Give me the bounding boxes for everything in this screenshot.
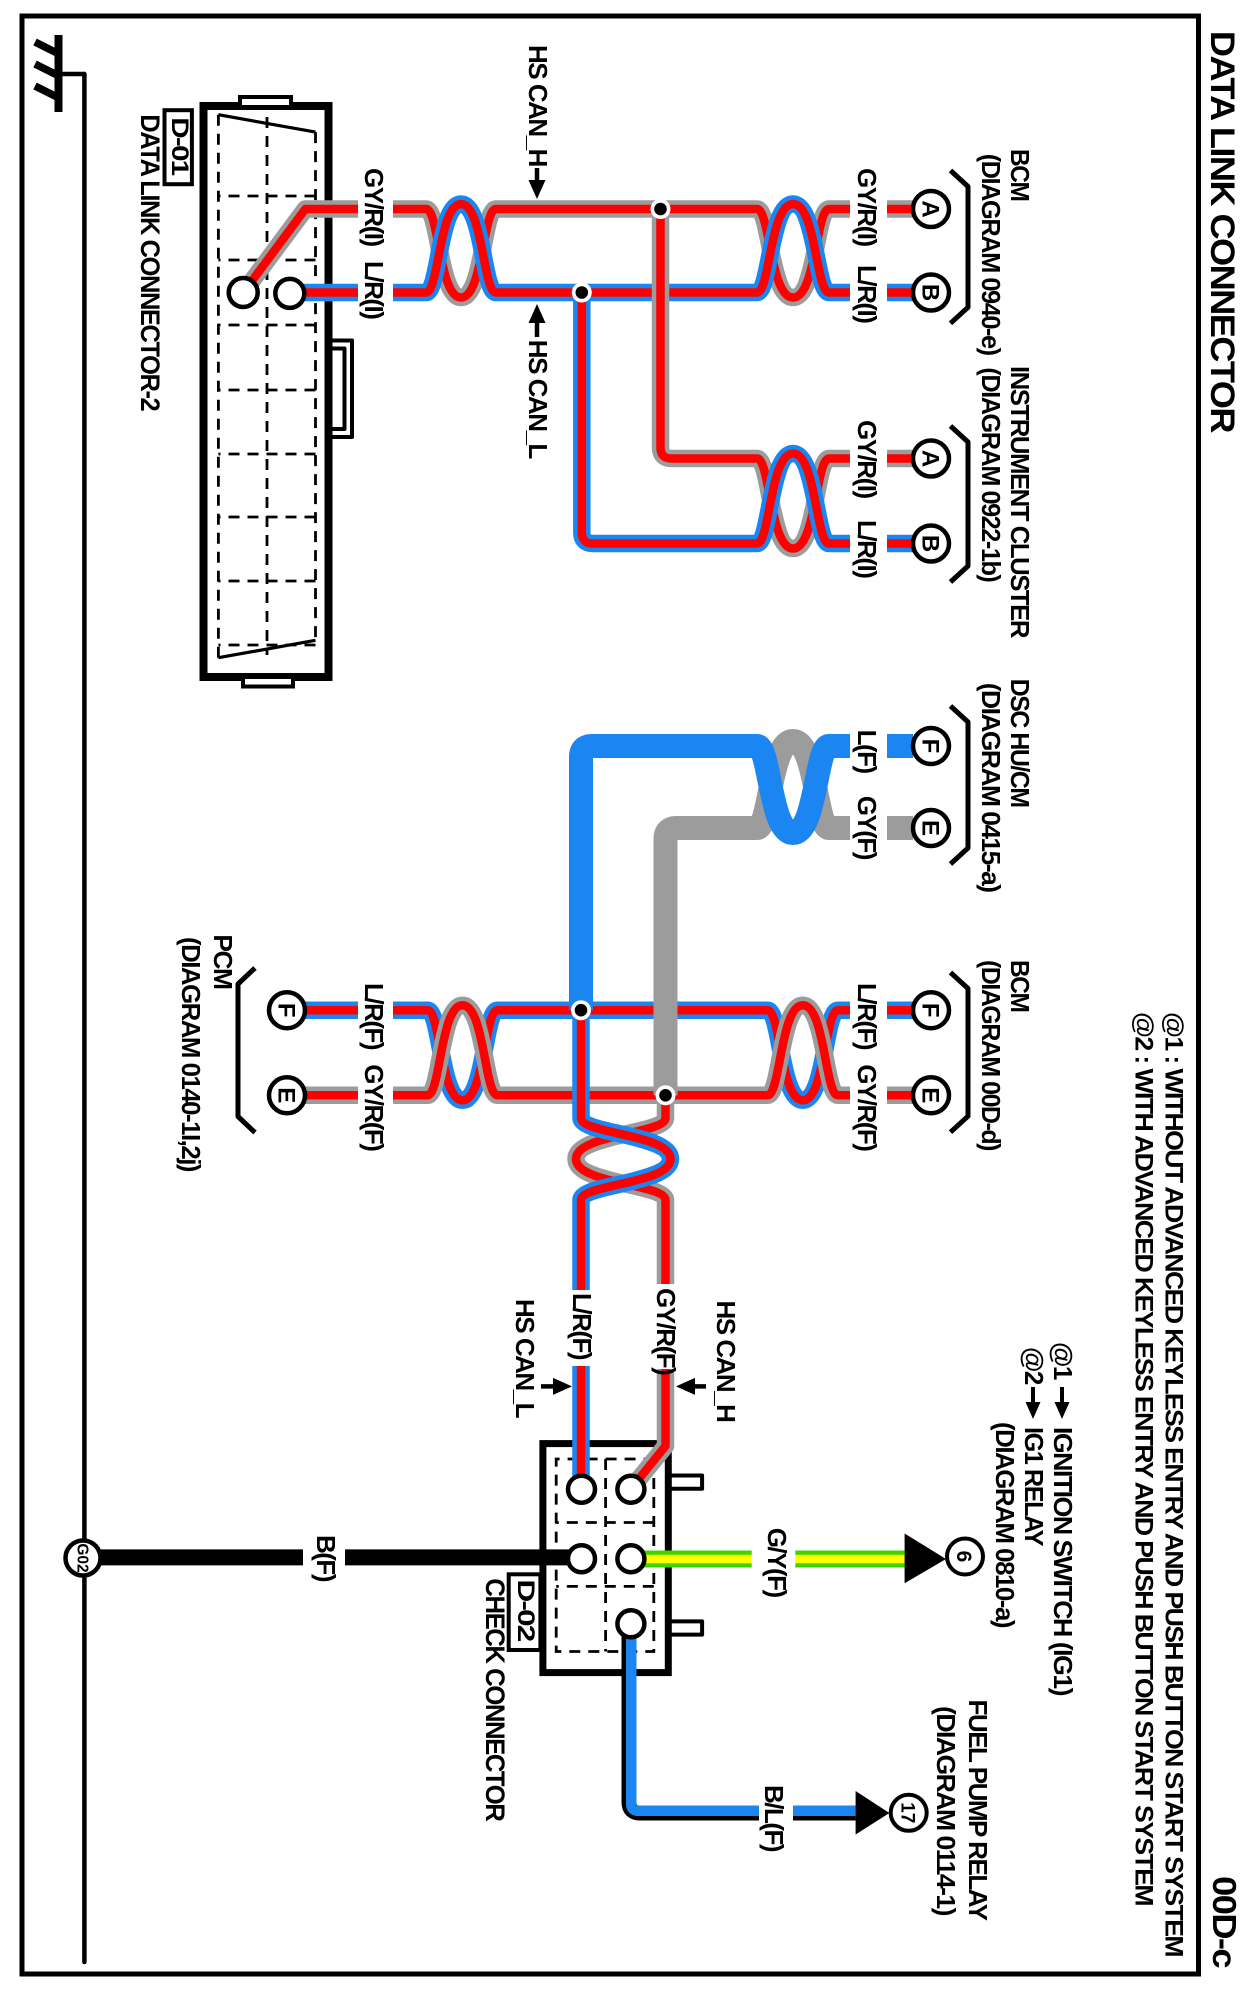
connector D-02 body xyxy=(543,1444,668,1673)
svg-text:(DIAGRAM 0922-1b): (DIAGRAM 0922-1b) xyxy=(976,367,1006,582)
D-02 label box xyxy=(509,1574,541,1650)
BCM 0940-e pins A B xyxy=(913,191,949,227)
svg-text:GY/R(F): GY/R(F) xyxy=(651,1288,681,1375)
junction node GY/R(F) xyxy=(656,1085,676,1105)
label GY/R(F) near check connector xyxy=(655,1284,677,1369)
wire L/R(I) BCM-B to DLC xyxy=(252,209,914,298)
D-02 top tabs xyxy=(668,1476,702,1489)
svg-text:GY/R(I): GY/R(I) xyxy=(852,420,882,498)
svg-text:6: 6 xyxy=(952,1551,975,1563)
wire GY/R(F) to check connector xyxy=(576,1095,666,1480)
svg-text:D-01: D-01 xyxy=(166,117,193,175)
svg-text:L/R(F): L/R(F) xyxy=(359,983,389,1050)
connector D-01 body xyxy=(204,106,329,677)
svg-text:L/R(I): L/R(I) xyxy=(852,265,882,323)
label B(F) xyxy=(303,1546,345,1568)
DSC HU/CM bracket xyxy=(951,706,969,864)
svg-text:D-02: D-02 xyxy=(512,1579,539,1641)
svg-text:B(F): B(F) xyxy=(311,1535,341,1582)
wire B/L(F) blue/black xyxy=(629,1630,856,1813)
junction node L/R(F) xyxy=(571,1000,591,1020)
svg-text:B: B xyxy=(917,535,944,552)
svg-text:@1 : WITHOUT ADVANCED KEYLESS: @1 : WITHOUT ADVANCED KEYLESS ENTRY AND … xyxy=(1160,1012,1188,1957)
ground G02 xyxy=(66,1541,101,1576)
D-01 top tab xyxy=(329,341,353,438)
wire G/Y(F) green/yellow xyxy=(636,1551,905,1568)
svg-text:DSC HU/CM: DSC HU/CM xyxy=(1005,679,1035,807)
svg-text:F: F xyxy=(917,1003,944,1018)
svg-text:FUEL PUMP RELAY: FUEL PUMP RELAY xyxy=(963,1700,993,1921)
label B/L(F) xyxy=(759,1802,793,1824)
svg-text:@2 : WITH ADVANCED KEYLESS ENT: @2 : WITH ADVANCED KEYLESS ENTRY AND PUS… xyxy=(1130,1012,1158,1906)
BCM 00D-d bracket xyxy=(951,973,969,1133)
label L/R(F) near check connector xyxy=(570,1290,592,1366)
label G/Y(F) xyxy=(752,1548,796,1570)
svg-text:A: A xyxy=(917,200,944,217)
svg-text:CHECK CONNECTOR: CHECK CONNECTOR xyxy=(480,1578,510,1821)
circuit ref 17 xyxy=(891,1795,927,1831)
svg-text:E: E xyxy=(917,1087,944,1103)
svg-text:B/L(F): B/L(F) xyxy=(759,1785,789,1852)
wire labels bottom row xyxy=(358,168,393,1151)
arrow to circuit 17 xyxy=(856,1791,890,1835)
svg-text:DATA LINK CONNECTOR: DATA LINK CONNECTOR xyxy=(1203,31,1241,434)
svg-text:IG1 RELAY: IG1 RELAY xyxy=(1019,1427,1049,1546)
svg-text:E: E xyxy=(917,820,944,836)
label HS CAN_L top xyxy=(535,321,540,337)
svg-text:L/R(I): L/R(I) xyxy=(359,261,389,319)
wire L/R(I) branch to instrument cluster B xyxy=(661,209,914,549)
wire GY(F) DSC gray xyxy=(666,741,914,1095)
svg-text:IGNITION SWITCH (IG1): IGNITION SWITCH (IG1) xyxy=(1048,1427,1078,1696)
svg-text:INSTRUMENT CLUSTER: INSTRUMENT CLUSTER xyxy=(1005,366,1035,639)
ground bus wire xyxy=(82,74,87,1962)
svg-text:F: F xyxy=(917,739,944,754)
wire L/R(F) to check connector xyxy=(581,1010,671,1480)
wire L/R(F) PCM-to-BCM xyxy=(305,1010,913,1100)
D-01 dashed cavity outline xyxy=(218,115,315,658)
svg-text:GY/R(I): GY/R(I) xyxy=(359,168,389,246)
svg-text:B: B xyxy=(917,284,944,301)
svg-text:(DIAGRAM 00D-d): (DIAGRAM 00D-d) xyxy=(976,960,1006,1151)
svg-text:L/R(I): L/R(I) xyxy=(852,520,882,578)
svg-text:BCM: BCM xyxy=(1005,960,1035,1012)
ground symbol xyxy=(35,35,85,112)
wire B(F) black ground wire xyxy=(101,1549,576,1565)
BCM 00D-d pins F E xyxy=(913,992,949,1028)
svg-text:G02: G02 xyxy=(74,1543,91,1572)
svg-text:GY/R(F): GY/R(F) xyxy=(359,1064,389,1151)
junction node GY/R(I) xyxy=(651,199,671,219)
DSC HU/CM pins F E xyxy=(913,728,949,764)
svg-text:L/R(F): L/R(F) xyxy=(567,1293,597,1360)
svg-text:HS CAN_H: HS CAN_H xyxy=(711,1301,741,1423)
D-02 pins xyxy=(568,1476,595,1503)
D-01 pin lower (GY/R) xyxy=(229,278,258,307)
instrument cluster pins A B xyxy=(913,441,949,477)
svg-text:(DIAGRAM 0415-a): (DIAGRAM 0415-a) xyxy=(976,683,1006,893)
svg-text:(DIAGRAM 0114-1): (DIAGRAM 0114-1) xyxy=(931,1706,961,1916)
D-02 dashed cavities xyxy=(556,1459,654,1652)
svg-text:G/Y(F): G/Y(F) xyxy=(762,1528,792,1598)
svg-text:HS CAN_H: HS CAN_H xyxy=(523,45,553,167)
svg-text:E: E xyxy=(273,1087,300,1103)
svg-text:GY(F): GY(F) xyxy=(852,796,882,860)
svg-text:HS CAN_L: HS CAN_L xyxy=(510,1299,540,1419)
svg-text:(DIAGRAM 0810-a): (DIAGRAM 0810-a) xyxy=(990,1422,1020,1628)
D-01 label box xyxy=(165,110,192,184)
svg-text:L/R(F): L/R(F) xyxy=(852,983,882,1050)
svg-text:@2: @2 xyxy=(1019,1347,1049,1385)
svg-text:17: 17 xyxy=(897,1802,918,1823)
svg-text:GY/R(I): GY/R(I) xyxy=(852,168,882,246)
svg-text:PCM: PCM xyxy=(208,934,238,988)
D-01 pin upper (L/R) xyxy=(275,279,304,308)
svg-text:A: A xyxy=(917,450,944,467)
circuit ref 6 xyxy=(947,1539,983,1575)
instrument cluster bracket xyxy=(951,426,969,582)
junction node L/R(I) xyxy=(572,283,592,303)
svg-text:HS CAN_L: HS CAN_L xyxy=(523,340,553,460)
D-01 right tab xyxy=(243,677,293,687)
wire GY/R(F) PCM-to-BCM xyxy=(305,1005,913,1095)
svg-text:(DIAGRAM 0140-1I,2j): (DIAGRAM 0140-1I,2j) xyxy=(176,937,206,1172)
svg-text:DATA LINK CONNECTOR-2: DATA LINK CONNECTOR-2 xyxy=(135,114,165,411)
svg-text:00D-c: 00D-c xyxy=(1206,1876,1243,1968)
arrow to circuit 6 xyxy=(905,1534,946,1584)
svg-text:GY/R(F): GY/R(F) xyxy=(852,1064,882,1151)
svg-text:(DIAGRAM 0940-e): (DIAGRAM 0940-e) xyxy=(976,154,1006,356)
D-01 left tab xyxy=(240,97,291,107)
svg-text:L(F): L(F) xyxy=(852,730,882,774)
svg-text:F: F xyxy=(273,1003,300,1018)
svg-text:BCM: BCM xyxy=(1005,149,1035,201)
BCM 0940-e bracket xyxy=(951,171,969,324)
PCM bracket xyxy=(238,968,255,1133)
PCM pins F E xyxy=(269,992,305,1028)
wire labels top row xyxy=(850,168,887,1151)
svg-text:@1: @1 xyxy=(1048,1342,1078,1380)
